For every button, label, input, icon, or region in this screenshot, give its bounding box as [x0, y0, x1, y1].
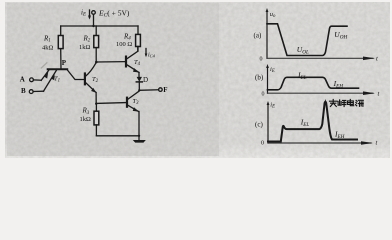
resistor R1: [58, 26, 63, 69]
axis x (a): [260, 56, 379, 63]
output terminal F: [159, 86, 168, 94]
input terminal B: [21, 87, 44, 95]
svg-text:1kΩ: 1kΩ: [80, 116, 92, 123]
ground: [133, 136, 146, 143]
axis x (b): [262, 91, 380, 98]
resistor R4: [136, 26, 141, 51]
axis y (c): [267, 101, 276, 143]
svg-text:1kΩ: 1kΩ: [79, 44, 91, 51]
label R4 100Ω: [116, 33, 132, 49]
svg-text:(c): (c): [255, 121, 263, 129]
svg-text:0: 0: [262, 92, 265, 98]
resistor R2: [94, 26, 99, 62]
input terminal A: [20, 76, 42, 84]
node: T2 collector junction: [95, 61, 98, 64]
wire T2 emitter to T3 base: [96, 102, 126, 105]
waveform (a) output voltage u_o: [267, 24, 347, 56]
label R2 1kΩ: [79, 35, 91, 52]
resistor R3: [94, 104, 99, 136]
svg-text:t: t: [378, 91, 380, 98]
svg-text:4kΩ: 4kΩ: [42, 45, 54, 52]
current arrow iE into EC terminal: [81, 9, 91, 20]
power terminal EC (+5V): [92, 11, 96, 28]
axis x (c): [261, 140, 378, 147]
axis y (b): [266, 64, 275, 93]
spike arrowhead apex: [324, 99, 327, 104]
svg-text:P: P: [62, 59, 67, 67]
wire output node to F: [139, 89, 158, 92]
transistor T3 (pull-down): [127, 91, 139, 136]
current arrow iC4: [145, 49, 156, 59]
node: T2 emitter junction: [95, 103, 97, 105]
svg-text:(a): (a): [254, 32, 262, 40]
svg-text:D: D: [143, 76, 148, 84]
diode D: [136, 77, 142, 90]
wire top supply rail: [61, 25, 138, 27]
waveform (c) actual supply current with spike: [268, 102, 357, 142]
node: output junction: [138, 89, 140, 91]
scan smudge artifact: [41, 63, 47, 68]
transistor T4 (pull-up): [126, 47, 139, 78]
transistor T1 (multi-emitter input): [41, 69, 84, 91]
wire bottom (R3 to ground node): [96, 135, 139, 137]
label R3 1kΩ: [80, 107, 92, 124]
svg-text:A: A: [20, 76, 25, 84]
svg-text:iC4: iC4: [148, 53, 156, 59]
svg-text:100 Ω: 100 Ω: [116, 41, 132, 48]
wire T2 collector to T4 base: [96, 61, 125, 63]
svg-text:0: 0: [260, 57, 263, 63]
label spike current (Chinese 尖峰电流): [330, 99, 364, 106]
axis y (a): [266, 8, 276, 58]
waveform (b) supply current i_E: [268, 77, 359, 90]
svg-text:F: F: [163, 86, 167, 94]
label R1 4kΩ: [42, 35, 54, 52]
svg-text:EC( + 5V): EC( + 5V): [98, 9, 130, 19]
svg-text:(b): (b): [255, 74, 264, 82]
transistor T2 (phase splitter): [85, 63, 96, 104]
node: ground junction: [138, 135, 140, 137]
svg-text:t: t: [376, 140, 378, 147]
svg-text:t: t: [376, 56, 378, 63]
svg-text:0: 0: [261, 141, 264, 147]
svg-text:B: B: [21, 87, 26, 95]
